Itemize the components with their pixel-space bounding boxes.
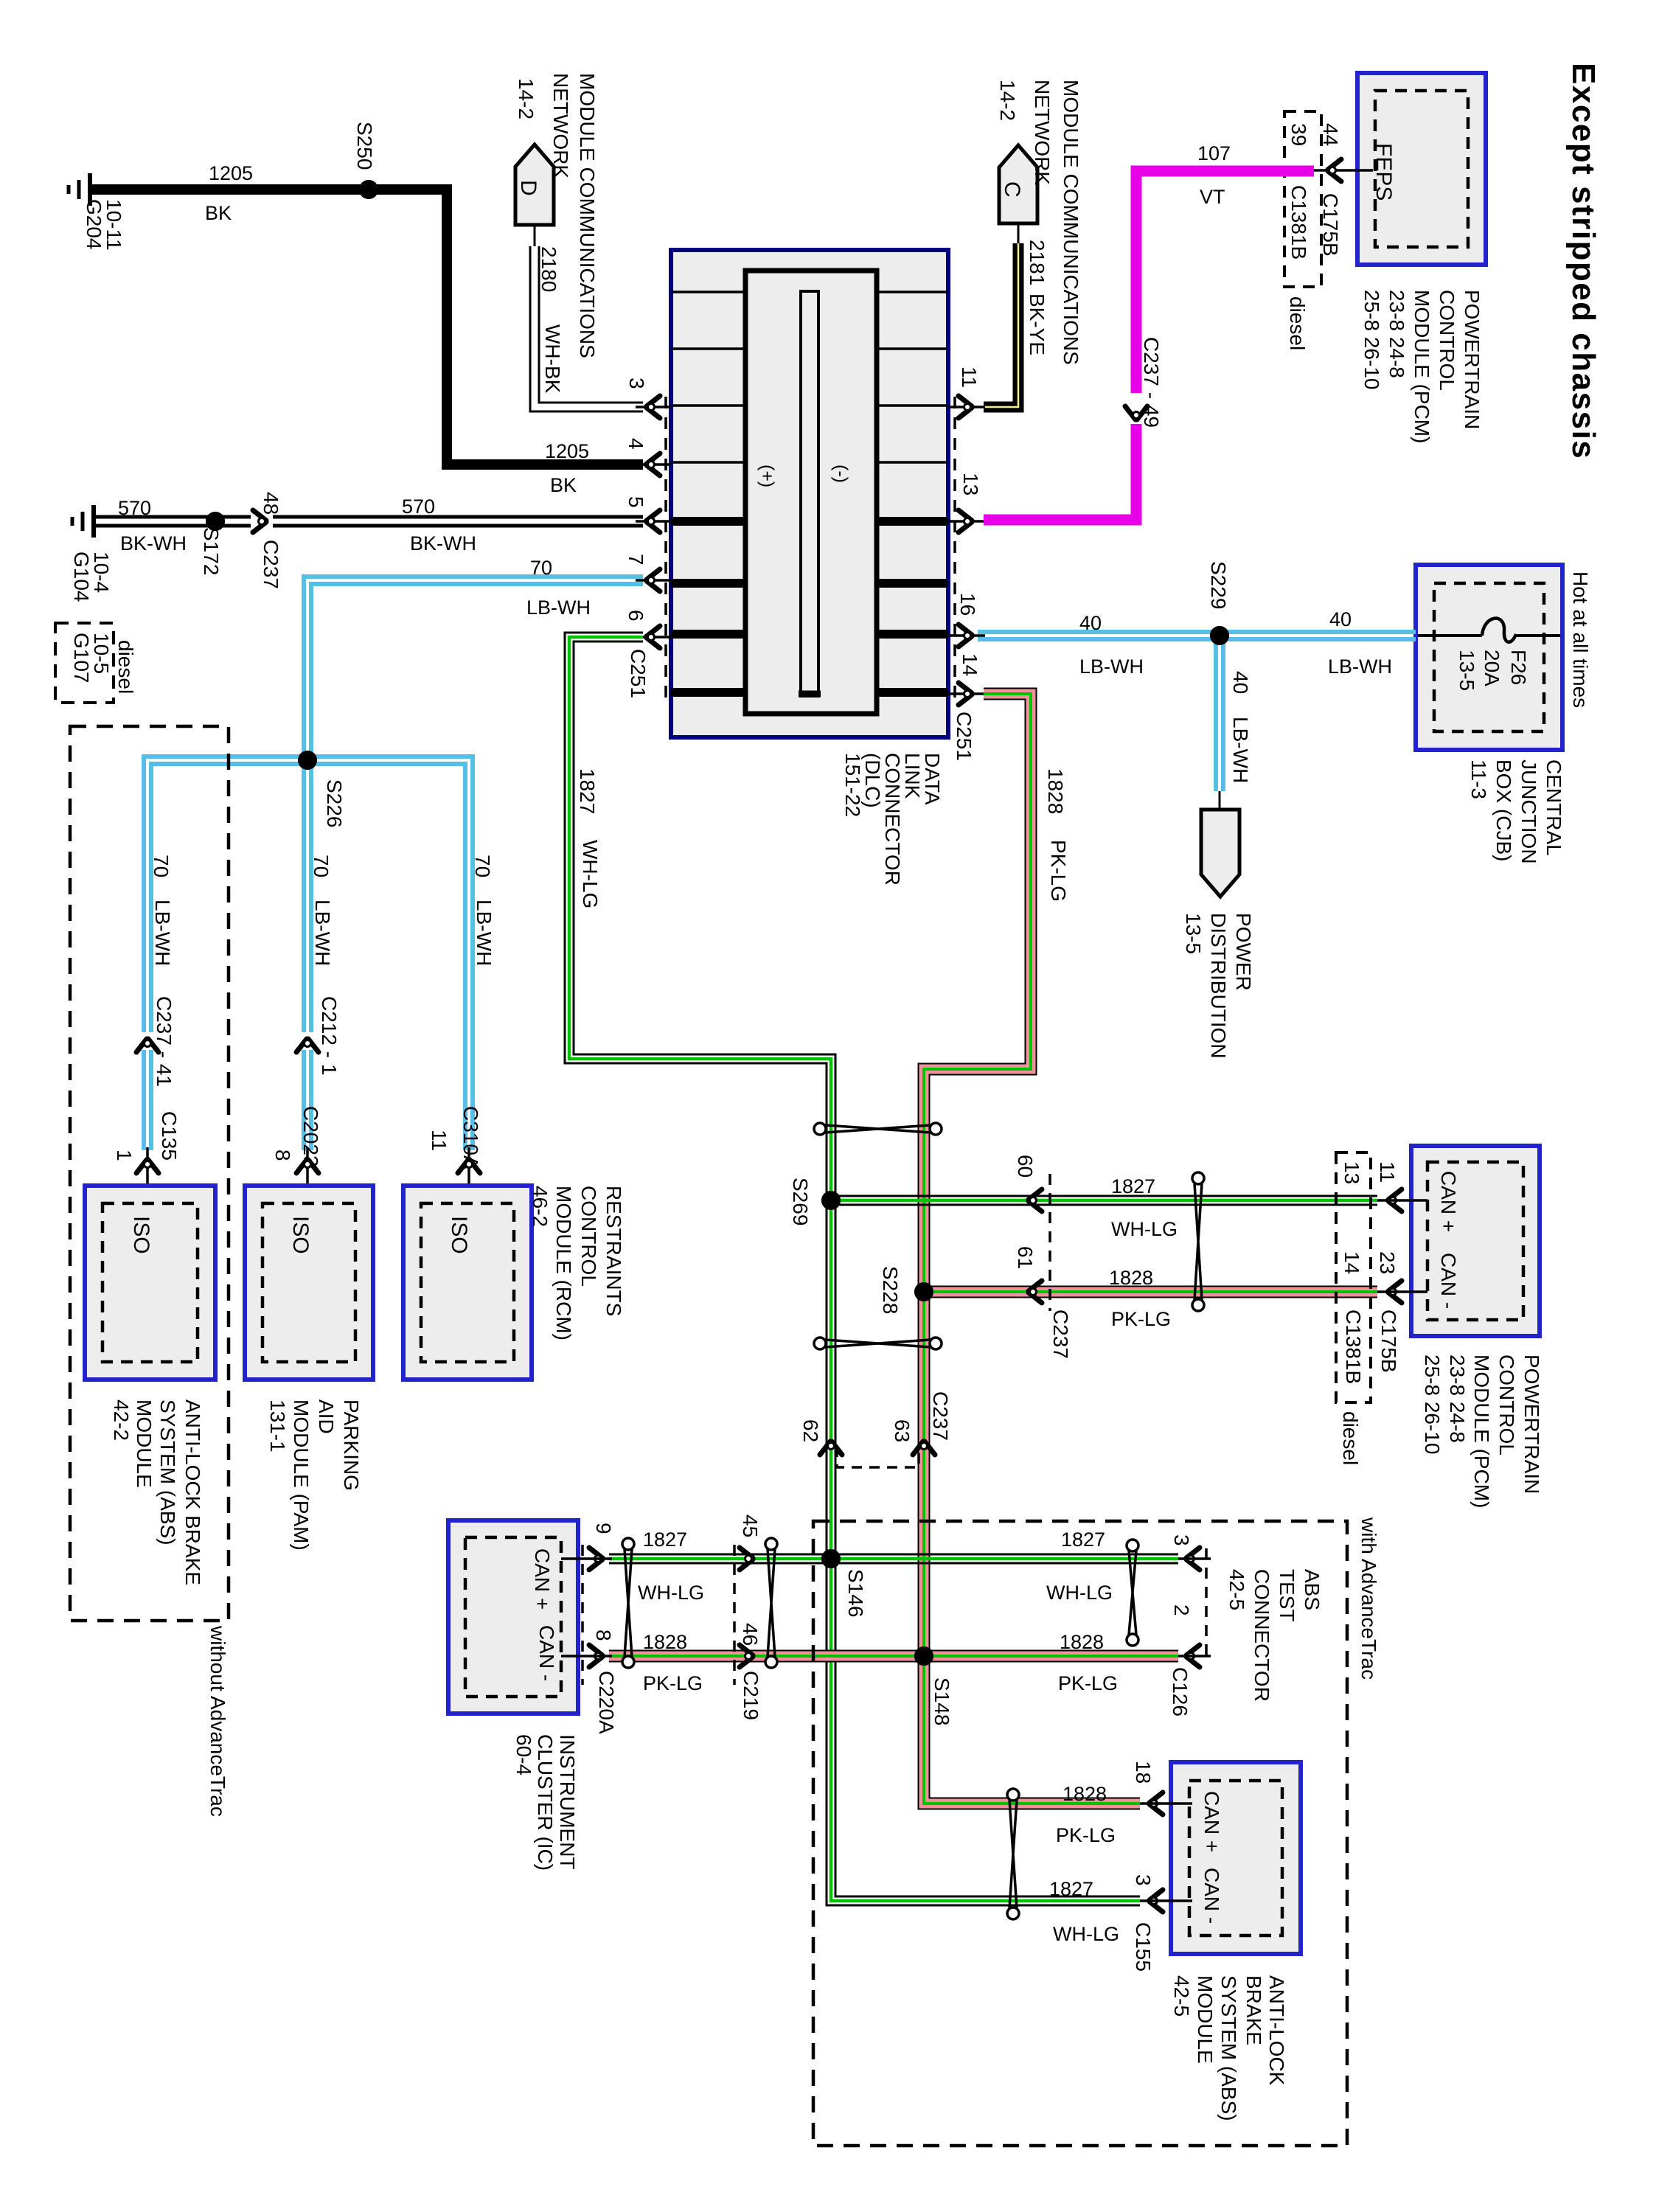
- svg-text:C126: C126: [1169, 1667, 1192, 1717]
- svg-text:42-2: 42-2: [110, 1399, 133, 1441]
- svg-text:C237: C237: [929, 1391, 952, 1441]
- svg-text:NETWORK: NETWORK: [549, 73, 572, 178]
- splice S250: [359, 180, 378, 199]
- svg-text:LB-WH: LB-WH: [151, 900, 174, 966]
- ABS module box: [1171, 1762, 1301, 1954]
- DLC inner bus rect: [745, 271, 877, 714]
- PCM pin 11 arrow: [1388, 1189, 1402, 1211]
- svg-text:C237: C237: [260, 540, 282, 589]
- svg-text:S250: S250: [353, 122, 376, 170]
- svg-text:13-5: 13-5: [1455, 650, 1478, 691]
- wire 570 BK-WH right: [273, 515, 643, 519]
- svg-text:CONTROL: CONTROL: [577, 1186, 600, 1287]
- svg-text:14: 14: [959, 653, 981, 676]
- svg-text:SYSTEM (ABS): SYSTEM (ABS): [156, 1399, 179, 1545]
- splice S146: [821, 1549, 841, 1568]
- FEPS pin 44 arrow: [1328, 159, 1341, 181]
- svg-text:PK-LG: PK-LG: [643, 1672, 703, 1694]
- PAM ISO box: [245, 1186, 373, 1380]
- IC pin 9 arrow: [589, 1548, 602, 1570]
- svg-text:C1381B: C1381B: [1287, 185, 1310, 260]
- svg-text:13: 13: [1340, 1161, 1363, 1184]
- RCM ISO box: [403, 1186, 532, 1380]
- svg-text:C155: C155: [1132, 1922, 1155, 1972]
- wire 70 LB-WH mid lower: [309, 1050, 313, 1150]
- splice S228 redraw: [914, 1282, 933, 1301]
- splice S226: [298, 751, 317, 770]
- svg-text:25-8 26-10: 25-8 26-10: [1421, 1354, 1444, 1454]
- svg-text:CAN +: CAN +: [1200, 1791, 1223, 1852]
- svg-text:1828: 1828: [1060, 1631, 1104, 1653]
- wire 1828 PK-LG main run: [924, 694, 1140, 1804]
- DLC left pin arrows 3 4 5 7 6: [636, 406, 671, 408]
- svg-text:45: 45: [739, 1514, 762, 1537]
- RCM iso pin arrow: [467, 1147, 470, 1203]
- svg-text:BK-YE: BK-YE: [1026, 293, 1048, 355]
- splice S228: [914, 1282, 933, 1301]
- svg-text:1828: 1828: [643, 1631, 687, 1653]
- svg-text:SYSTEM (ABS): SYSTEM (ABS): [1217, 1975, 1240, 2121]
- svg-text:MODULE (RCM): MODULE (RCM): [552, 1186, 575, 1340]
- svg-text:C135: C135: [158, 1111, 181, 1161]
- wire 1827 IC row: [609, 1554, 1178, 1556]
- connector 45 arrow: [740, 1548, 753, 1570]
- svg-text:WH-LG: WH-LG: [1046, 1582, 1113, 1604]
- svg-text:POWERTRAIN: POWERTRAIN: [1461, 290, 1484, 429]
- svg-text:LB-WH: LB-WH: [1328, 655, 1392, 678]
- svg-text:70: 70: [310, 855, 333, 877]
- PCM CAN box: [1411, 1146, 1540, 1336]
- svg-text:C237: C237: [1049, 1310, 1072, 1359]
- svg-text:S148: S148: [931, 1677, 953, 1725]
- svg-text:23-8 24-8: 23-8 24-8: [1385, 290, 1408, 378]
- connector 61 arrow: [1029, 1281, 1042, 1303]
- svg-text:C212 - 1: C212 - 1: [318, 996, 341, 1075]
- connector arrow C module communications network: [999, 145, 1037, 223]
- svg-text:diesel: diesel: [114, 640, 137, 694]
- fuse F26 20A: [1418, 634, 1482, 637]
- svg-text:570: 570: [402, 495, 435, 518]
- svg-text:46-2: 46-2: [529, 1186, 552, 1227]
- svg-text:2180: 2180: [538, 246, 560, 292]
- svg-text:11: 11: [1376, 1161, 1399, 1183]
- dashed bracket C237 62 63: [837, 1447, 919, 1467]
- wire 1828 IC row: [609, 1652, 1178, 1661]
- svg-text:ISO: ISO: [447, 1216, 471, 1254]
- svg-text:BOX (CJB): BOX (CJB): [1492, 759, 1515, 861]
- splice S229 redraw: [1210, 626, 1229, 645]
- dashed line C237 at 60 61: [1048, 1174, 1051, 1311]
- wire 570 BK-WH left: [96, 515, 251, 519]
- ABS test pin 2 arrow: [1186, 1645, 1200, 1667]
- svg-text:14-2: 14-2: [515, 78, 538, 119]
- svg-text:S146: S146: [844, 1569, 867, 1617]
- svg-text:25-8 26-10: 25-8 26-10: [1360, 290, 1383, 389]
- svg-text:1828: 1828: [1109, 1267, 1153, 1289]
- wire 70 LB-WH pin7: [311, 584, 643, 758]
- svg-text:4: 4: [625, 438, 647, 450]
- DLC box outline: [671, 250, 948, 737]
- svg-text:7: 7: [625, 554, 647, 566]
- wire 2180 WH-BK: [539, 246, 643, 403]
- svg-text:LB-WH: LB-WH: [1229, 717, 1252, 783]
- svg-text:2181: 2181: [1026, 240, 1048, 285]
- svg-text:C251: C251: [953, 712, 975, 761]
- DLC slot rect: [801, 291, 818, 696]
- svg-text:63: 63: [891, 1419, 914, 1442]
- svg-text:13: 13: [959, 473, 982, 495]
- svg-text:JUNCTION: JUNCTION: [1517, 759, 1540, 864]
- svg-text:60-4: 60-4: [512, 1734, 535, 1775]
- svg-text:151-22: 151-22: [841, 753, 864, 817]
- svg-text:107: 107: [1197, 142, 1231, 164]
- svg-text:PARKING: PARKING: [340, 1399, 363, 1491]
- svg-text:CAN -: CAN -: [1200, 1868, 1223, 1924]
- svg-text:C251: C251: [627, 649, 650, 698]
- svg-text:AID: AID: [315, 1399, 338, 1434]
- svg-text:WH-LG: WH-LG: [579, 840, 602, 908]
- svg-text:48: 48: [260, 492, 282, 515]
- svg-text:CONTROL: CONTROL: [1495, 1354, 1518, 1455]
- svg-text:42-5: 42-5: [1170, 1975, 1193, 2017]
- svg-text:3: 3: [1170, 1534, 1193, 1546]
- svg-text:1205: 1205: [209, 162, 253, 184]
- connector C237-41: [136, 1039, 159, 1052]
- svg-text:CAN -: CAN -: [535, 1625, 558, 1681]
- svg-text:ANTI-LOCK BRAKE: ANTI-LOCK BRAKE: [181, 1399, 204, 1585]
- svg-text:1827: 1827: [576, 768, 599, 814]
- connector C237-49: [1125, 406, 1147, 420]
- dashed box without AdvanceTrac: [70, 726, 229, 1621]
- svg-text:MODULE (PCM): MODULE (PCM): [1411, 290, 1433, 443]
- svg-text:ABS: ABS: [1301, 1569, 1324, 1610]
- FEPS pin 44 stub: [1314, 169, 1373, 172]
- svg-text:G107: G107: [70, 633, 93, 684]
- svg-text:MODULE: MODULE: [133, 1399, 156, 1488]
- svg-text:PK-LG: PK-LG: [1111, 1308, 1171, 1330]
- connector C237-48: [253, 510, 266, 532]
- connector C212-1: [296, 1039, 319, 1052]
- svg-text:Except stripped chassis: Except stripped chassis: [1565, 63, 1601, 459]
- wire stub from D: [534, 225, 536, 246]
- svg-text:C2023: C2023: [299, 1106, 322, 1167]
- wire 70 LB-WH left branch: [151, 764, 307, 1032]
- svg-text:1828: 1828: [1062, 1783, 1107, 1805]
- wire 40 LB-WH left: [978, 630, 1214, 634]
- DLC pin slot lines: [671, 291, 948, 293]
- wire 1828 to PCM: [924, 1287, 1377, 1297]
- svg-text:CENTRAL: CENTRAL: [1543, 759, 1565, 856]
- splice S229: [1210, 626, 1229, 645]
- connector 63 arrow: [913, 1441, 935, 1455]
- svg-text:C237 - 49: C237 - 49: [1140, 337, 1163, 428]
- splice S148: [914, 1646, 933, 1666]
- svg-text:BK: BK: [550, 474, 577, 496]
- svg-text:14-2: 14-2: [996, 80, 1019, 121]
- svg-text:70: 70: [150, 855, 173, 877]
- svg-text:1827: 1827: [1111, 1175, 1155, 1197]
- svg-text:(+): (+): [757, 465, 777, 487]
- connector arrow D module communications network: [515, 145, 554, 225]
- svg-text:NETWORK: NETWORK: [1031, 80, 1054, 185]
- ABS pin 3 arrow: [1150, 1890, 1163, 1912]
- svg-text:10-5: 10-5: [90, 633, 113, 674]
- svg-text:60: 60: [1014, 1155, 1037, 1178]
- svg-text:5: 5: [625, 496, 647, 508]
- svg-text:MODULE (PAM): MODULE (PAM): [290, 1399, 313, 1551]
- svg-text:TEST: TEST: [1276, 1569, 1298, 1622]
- svg-text:WH-BK: WH-BK: [541, 324, 564, 394]
- svg-text:MODULE (PCM): MODULE (PCM): [1470, 1354, 1493, 1508]
- wire 70 LB-WH right branch: [307, 757, 473, 1150]
- twist symbol upper pair: [814, 1123, 826, 1135]
- svg-text:20A: 20A: [1481, 650, 1503, 686]
- svg-text:23-8 24-8: 23-8 24-8: [1446, 1354, 1469, 1443]
- svg-text:PK-LG: PK-LG: [1056, 1824, 1116, 1846]
- svg-text:39: 39: [1287, 123, 1310, 146]
- svg-text:POWER: POWER: [1232, 913, 1255, 991]
- wire 1827 to PCM: [831, 1195, 1377, 1197]
- twist symbol at PCM: [1192, 1172, 1204, 1184]
- svg-text:Hot at all times: Hot at all times: [1569, 571, 1592, 708]
- splice S148 redraw: [914, 1646, 933, 1666]
- svg-text:LB-WH: LB-WH: [1079, 655, 1144, 678]
- FEPS box: [1357, 73, 1486, 265]
- svg-text:3: 3: [625, 378, 648, 389]
- svg-text:46: 46: [739, 1623, 762, 1646]
- svg-text:diesel: diesel: [1286, 296, 1309, 350]
- svg-text:C175B: C175B: [1377, 1310, 1400, 1373]
- svg-text:C175B: C175B: [1319, 193, 1342, 257]
- svg-text:diesel: diesel: [1339, 1411, 1362, 1465]
- wire 40 LB-WH down: [1221, 641, 1225, 791]
- splice S226 redraw: [298, 751, 317, 770]
- svg-text:LB-WH: LB-WH: [311, 900, 334, 966]
- svg-text:ISO: ISO: [129, 1216, 153, 1254]
- connector 60 arrow: [1029, 1189, 1042, 1211]
- twist symbol after C219: [765, 1538, 777, 1550]
- svg-text:S226: S226: [323, 779, 346, 827]
- dashed line C126: [1205, 1548, 1208, 1663]
- svg-text:10-11: 10-11: [102, 199, 125, 251]
- svg-text:BK-WH: BK-WH: [120, 532, 187, 554]
- twist symbol lower pair: [814, 1338, 826, 1349]
- svg-text:CAN +: CAN +: [531, 1548, 554, 1610]
- svg-text:40: 40: [1229, 671, 1252, 694]
- twist symbol IC pair: [622, 1538, 634, 1550]
- svg-text:MODULE COMMUNICATIONS: MODULE COMMUNICATIONS: [576, 73, 599, 358]
- splice S172: [206, 512, 225, 531]
- wire 70 LB-WH left lower: [149, 1050, 153, 1150]
- splice S250 redraw: [359, 180, 378, 199]
- ABS iso pin arrow: [146, 1147, 149, 1203]
- svg-text:ANTI-LOCK: ANTI-LOCK: [1265, 1975, 1288, 2086]
- svg-text:WH-LG: WH-LG: [1111, 1218, 1178, 1240]
- svg-text:1828: 1828: [1044, 768, 1067, 814]
- svg-text:S229: S229: [1207, 561, 1230, 609]
- svg-text:F26: F26: [1507, 650, 1530, 685]
- svg-text:VT: VT: [1200, 186, 1225, 208]
- connector 46 arrow: [740, 1645, 753, 1667]
- svg-text:8: 8: [592, 1630, 615, 1641]
- svg-text:C1381B: C1381B: [1342, 1310, 1365, 1384]
- svg-text:70: 70: [471, 855, 494, 877]
- svg-text:WH-LG: WH-LG: [638, 1582, 704, 1604]
- svg-text:RESTRAINTS: RESTRAINTS: [602, 1186, 625, 1316]
- svg-text:62: 62: [799, 1419, 822, 1442]
- svg-text:BK: BK: [205, 202, 232, 224]
- wire stub to power distribution: [1219, 791, 1221, 811]
- svg-text:S269: S269: [789, 1178, 812, 1225]
- svg-text:CAN +: CAN +: [1437, 1171, 1460, 1232]
- DLC right pin arrows 11 13 16 14: [948, 406, 985, 408]
- svg-text:1205: 1205: [545, 440, 589, 462]
- svg-text:C: C: [1000, 181, 1024, 198]
- svg-text:8: 8: [271, 1150, 294, 1161]
- ABS pin 18 arrow: [1150, 1792, 1163, 1815]
- svg-text:ISO: ISO: [288, 1216, 313, 1254]
- svg-text:C237 - 41: C237 - 41: [153, 996, 175, 1087]
- PCM pin 23 arrow: [1388, 1281, 1402, 1303]
- svg-text:1827: 1827: [1049, 1878, 1093, 1900]
- svg-text:3: 3: [1132, 1874, 1155, 1886]
- CJB box: [1416, 565, 1562, 750]
- svg-text:LB-WH: LB-WH: [526, 597, 591, 619]
- svg-text:MODULE: MODULE: [1194, 1975, 1217, 2064]
- IC box: [448, 1520, 578, 1714]
- svg-text:PK-LG: PK-LG: [1047, 840, 1070, 902]
- ground G104: [91, 505, 96, 538]
- dashed box with AdvanceTrac: [813, 1521, 1347, 2146]
- svg-text:D: D: [516, 180, 540, 196]
- twist symbol at ABS module: [1007, 1789, 1019, 1801]
- svg-text:with AdvanceTrac: with AdvanceTrac: [1357, 1517, 1380, 1680]
- svg-text:14: 14: [1340, 1251, 1363, 1274]
- wire stub from C: [1018, 223, 1020, 243]
- svg-text:2: 2: [1170, 1604, 1193, 1616]
- svg-text:13-5: 13-5: [1182, 913, 1205, 954]
- svg-text:BK-WH: BK-WH: [410, 532, 476, 554]
- IC pin 8 arrow: [589, 1645, 602, 1667]
- svg-text:1827: 1827: [643, 1528, 687, 1551]
- wire 40 LB-WH right: [1225, 630, 1416, 634]
- power distribution pentagon: [1201, 810, 1239, 897]
- svg-text:570: 570: [118, 497, 151, 519]
- svg-text:10-4: 10-4: [90, 552, 113, 593]
- svg-text:61: 61: [1014, 1246, 1037, 1269]
- connector 62 arrow: [820, 1441, 842, 1455]
- wire 107 VT: [1136, 171, 1314, 393]
- DLC C251 dashed right: [953, 397, 956, 702]
- svg-text:1: 1: [113, 1150, 136, 1161]
- svg-text:CONNECTOR: CONNECTOR: [1251, 1569, 1273, 1702]
- splice S269 redraw: [821, 1191, 841, 1210]
- DLC C251 dashed left: [664, 397, 667, 702]
- svg-text:CONTROL: CONTROL: [1436, 290, 1458, 391]
- wire 70 LB-WH mid branch: [309, 765, 313, 1032]
- svg-text:11-3: 11-3: [1467, 759, 1490, 799]
- dashed line C220A: [581, 1545, 584, 1685]
- dashed line C219: [733, 1545, 736, 1685]
- svg-text:WH-LG: WH-LG: [1053, 1923, 1119, 1945]
- dashed connector box C1381B top: [1284, 111, 1321, 287]
- svg-text:11: 11: [428, 1130, 451, 1151]
- svg-text:LB-WH: LB-WH: [473, 900, 495, 966]
- dashed connector box C1381B bottom: [1336, 1152, 1371, 1402]
- svg-text:131-1: 131-1: [266, 1399, 289, 1453]
- svg-text:40: 40: [1079, 612, 1102, 634]
- dashed box G107 diesel: [55, 623, 114, 703]
- svg-text:MODULE COMMUNICATIONS: MODULE COMMUNICATIONS: [1060, 80, 1082, 365]
- svg-text:23: 23: [1376, 1251, 1399, 1274]
- svg-text:44: 44: [1319, 123, 1342, 146]
- svg-text:CLUSTER (IC): CLUSTER (IC): [534, 1734, 557, 1871]
- twist symbol before ABS test: [1127, 1540, 1138, 1551]
- splice S269: [821, 1191, 841, 1210]
- ABS test pin 3 arrow: [1186, 1548, 1200, 1570]
- svg-text:POWERTRAIN: POWERTRAIN: [1520, 1354, 1543, 1494]
- svg-text:(-): (-): [830, 465, 851, 483]
- svg-text:6: 6: [625, 610, 647, 622]
- svg-text:S172: S172: [200, 527, 223, 575]
- ground G204: [88, 173, 92, 206]
- svg-text:9: 9: [592, 1523, 615, 1534]
- wire 1205 BK ground to DLC pin 4: [92, 189, 643, 465]
- svg-text:1827: 1827: [1061, 1528, 1105, 1551]
- svg-text:11: 11: [958, 366, 981, 388]
- svg-text:DISTRIBUTION: DISTRIBUTION: [1207, 913, 1230, 1059]
- svg-text:without AdvanceTrac: without AdvanceTrac: [206, 1625, 229, 1817]
- svg-text:PK-LG: PK-LG: [1058, 1672, 1118, 1694]
- splice S146 redraw: [821, 1549, 841, 1568]
- svg-text:INSTRUMENT: INSTRUMENT: [556, 1734, 579, 1870]
- svg-text:40: 40: [1329, 608, 1352, 630]
- svg-text:16: 16: [956, 593, 979, 616]
- svg-text:18: 18: [1132, 1761, 1155, 1784]
- svg-text:42-5: 42-5: [1225, 1569, 1248, 1610]
- svg-text:S228: S228: [879, 1266, 902, 1314]
- wire 2181 BK-YE: [984, 243, 1018, 407]
- svg-text:BRAKE: BRAKE: [1242, 1975, 1265, 2045]
- svg-text:G104: G104: [70, 552, 93, 602]
- wire 1827 WH-LG main run: [574, 641, 1140, 1896]
- svg-text:C219: C219: [740, 1671, 762, 1720]
- svg-text:70: 70: [530, 557, 552, 579]
- PAM iso pin arrow: [306, 1147, 309, 1203]
- ABS ISO box: [85, 1186, 215, 1380]
- svg-text:C220A: C220A: [595, 1671, 618, 1734]
- svg-text:CAN -: CAN -: [1437, 1253, 1460, 1309]
- svg-text:FEPS: FEPS: [1371, 143, 1396, 201]
- splice S172 redraw: [206, 512, 225, 531]
- svg-text:G204: G204: [83, 199, 105, 250]
